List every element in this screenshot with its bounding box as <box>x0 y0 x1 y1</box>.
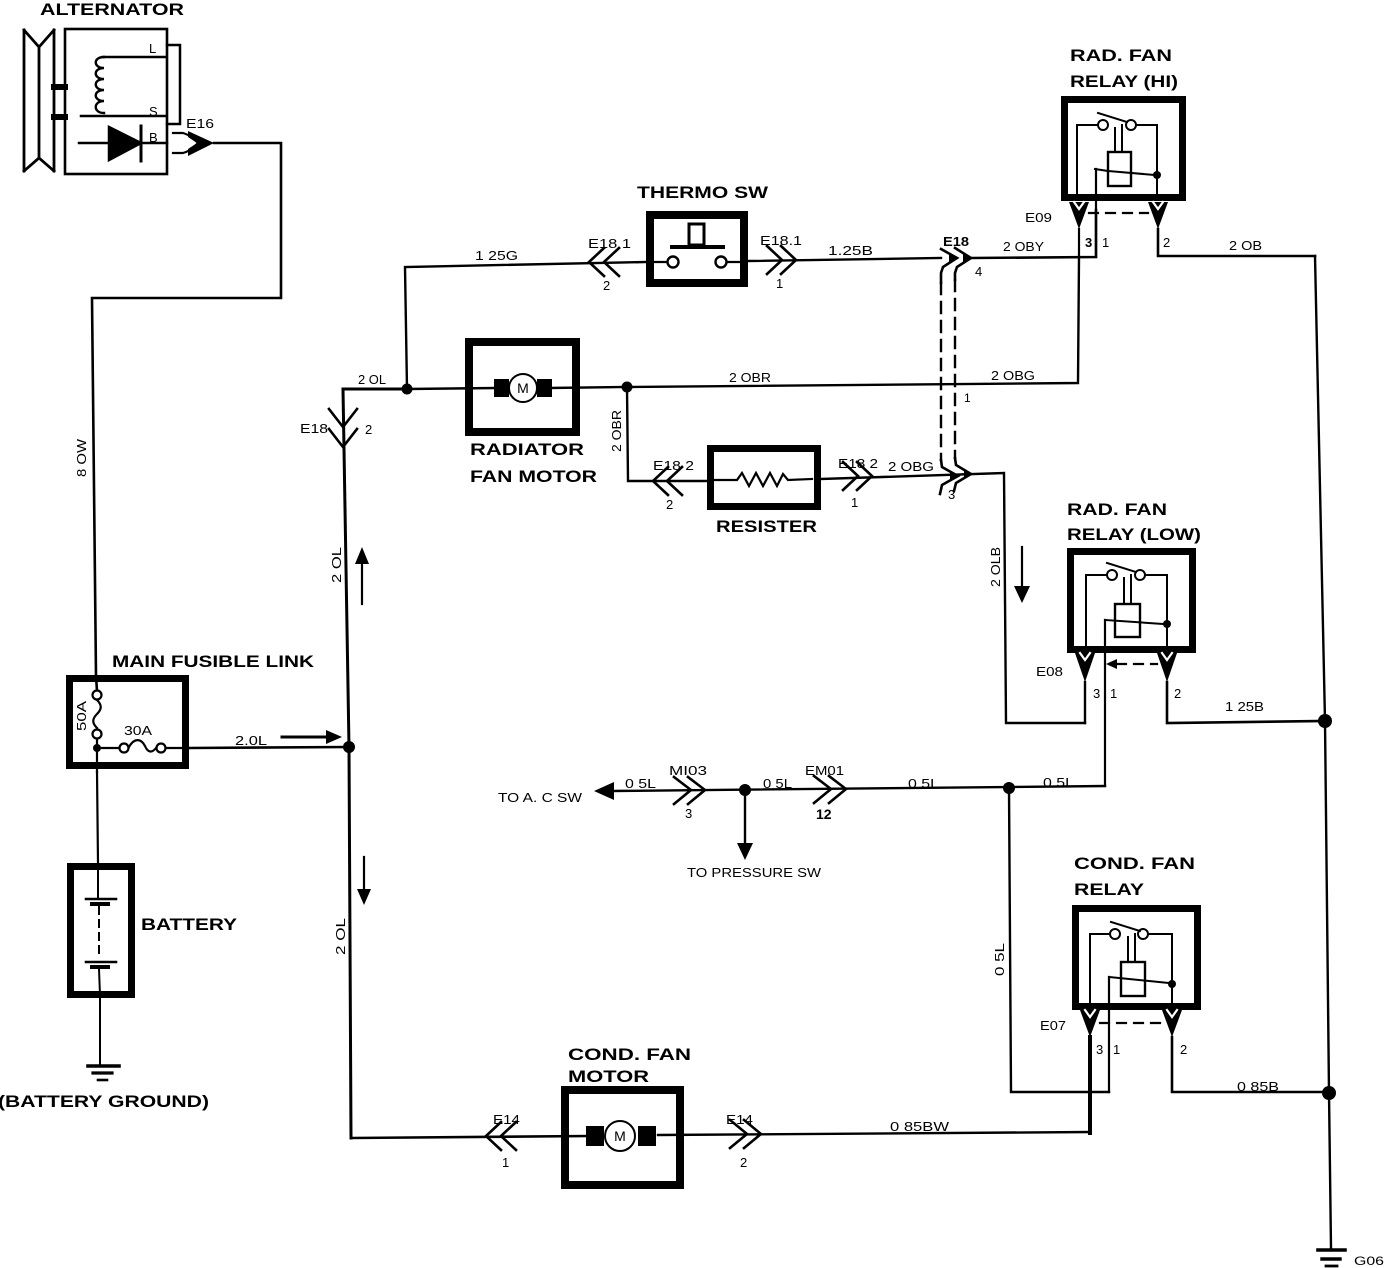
connector E14 pin 2 chevrons <box>726 1112 761 1170</box>
svg-text:0 5L: 0 5L <box>992 943 1007 976</box>
wire label 0 5L fourth <box>1043 775 1074 790</box>
arrow up on 2.0L <box>355 547 369 604</box>
battery cells <box>86 869 116 995</box>
svg-text:8 OW: 8 OW <box>74 438 89 477</box>
wire 2.0B to right bus <box>1158 229 1315 256</box>
cond fan motor M <box>586 1121 1090 1151</box>
svg-text:COND. FAN: COND. FAN <box>568 1045 691 1064</box>
wire 1.25B thermo to E18 <box>748 258 941 261</box>
svg-text:M: M <box>517 380 529 396</box>
svg-text:1: 1 <box>964 391 971 405</box>
svg-text:3: 3 <box>1096 1042 1103 1057</box>
wire 0.5L row <box>612 786 1105 791</box>
connector E18 boundary dashed lines <box>941 280 955 460</box>
wire 2.0BY <box>971 210 1096 258</box>
svg-text:B: B <box>149 130 158 145</box>
svg-text:1: 1 <box>851 495 858 510</box>
svg-text:30A: 30A <box>124 723 152 738</box>
cond fan relay pin 1 wire <box>1108 977 1110 1092</box>
svg-text:2: 2 <box>603 278 610 293</box>
fuse 50A <box>74 691 102 739</box>
svg-text:MAIN FUSIBLE LINK: MAIN FUSIBLE LINK <box>112 652 315 671</box>
cond fan relay pin numbers <box>1096 1042 1187 1057</box>
rad fan relay LOW pin 1 wire <box>1104 620 1106 786</box>
svg-text:2.0L: 2.0L <box>235 733 267 748</box>
wire 1.25B relay LOW pin 2 <box>1167 682 1325 723</box>
connector E07 triangles <box>1040 1010 1182 1037</box>
svg-text:RESISTER: RESISTER <box>716 517 817 536</box>
right vertical bus 2.0B <box>1315 256 1331 1248</box>
svg-text:EM01: EM01 <box>805 763 844 778</box>
wire 2.0L to cond fan motor <box>351 1136 588 1138</box>
alternator body box <box>65 29 167 174</box>
diode D1 <box>79 126 167 161</box>
radiator fan motor M <box>407 374 627 402</box>
svg-text:2 OLB: 2 OLB <box>988 547 1003 587</box>
junction node 1.25B on bus <box>1318 714 1332 728</box>
svg-text:1.25B: 1.25B <box>828 243 873 258</box>
fuse 30A <box>102 723 189 753</box>
wire 2.0BR to relay HI <box>627 257 1079 387</box>
svg-text:MOTOR: MOTOR <box>568 1067 649 1086</box>
resister label <box>716 517 817 536</box>
svg-text:1: 1 <box>1102 235 1109 250</box>
svg-text:50A: 50A <box>74 701 89 731</box>
wire label 2 OBG lower <box>888 459 934 474</box>
wire label 0 5L second <box>763 776 792 791</box>
connector E18 pin 3 crossing <box>940 458 973 502</box>
wire label 2 OBG top <box>991 368 1035 383</box>
connector MI03 chevrons <box>669 763 707 821</box>
wire label 2 OL top <box>358 372 386 387</box>
wire label 0.5L rotated <box>992 943 1007 976</box>
rad fan relay LOW pin numbers <box>1093 686 1181 701</box>
wire label 2 OL rotated upper <box>329 547 344 583</box>
cond fan relay box <box>1076 909 1198 1007</box>
connector E14 pin 1 chevrons <box>486 1112 520 1170</box>
connector E18.1 pin 1 chevrons <box>760 233 802 291</box>
rad fan relay LOW pin 3 wire <box>1084 682 1086 723</box>
junction node pressure switch branch <box>739 784 751 796</box>
svg-text:3: 3 <box>948 487 955 502</box>
svg-text:E07: E07 <box>1040 1018 1066 1033</box>
svg-text:E18 2: E18 2 <box>838 456 878 471</box>
wire 2.0L vertical main run <box>343 389 351 1138</box>
svg-text:M: M <box>614 1128 626 1144</box>
connector EM01 chevrons <box>805 763 846 822</box>
wire label 1.25B <box>828 243 873 258</box>
svg-text:2: 2 <box>1174 686 1181 701</box>
terminal S <box>149 104 158 119</box>
wire label 2 OLB rotated <box>988 547 1003 587</box>
rad fan relay HI box <box>1065 100 1183 198</box>
svg-text:1: 1 <box>502 1155 509 1170</box>
connector E18 pin 1 crossing label <box>964 391 971 405</box>
svg-text:4: 4 <box>975 264 982 279</box>
wire from fusible link to battery <box>97 772 98 863</box>
radiator fan motor box <box>469 342 576 432</box>
connector E09 triangles <box>1025 202 1168 229</box>
rad fan relay LOW label <box>1067 500 1201 544</box>
svg-text:RAD. FAN: RAD. FAN <box>1067 500 1167 519</box>
alternator field coil <box>81 57 166 116</box>
cond fan relay label <box>1074 854 1195 899</box>
svg-text:0 5L: 0 5L <box>763 776 792 791</box>
battery label <box>141 915 238 934</box>
wire 2.0BR branch down to resister <box>627 387 707 481</box>
battery ground symbol <box>88 1066 119 1080</box>
svg-text:BATTERY: BATTERY <box>141 915 238 934</box>
svg-text:RAD. FAN: RAD. FAN <box>1070 46 1172 65</box>
svg-text:(BATTERY GROUND): (BATTERY GROUND) <box>0 1092 209 1111</box>
svg-text:E16: E16 <box>186 116 214 131</box>
connector E18.2 pin 1 chevrons <box>838 456 878 510</box>
svg-text:RELAY: RELAY <box>1074 880 1145 899</box>
junction node at radiator motor feed <box>402 384 413 395</box>
svg-text:S: S <box>149 104 158 119</box>
rad fan relay LOW internals <box>1086 563 1171 649</box>
svg-text:0 5L: 0 5L <box>908 776 939 791</box>
svg-text:2 OB: 2 OB <box>1229 238 1262 253</box>
rad fan relay HI pin 1 wire <box>1095 169 1097 257</box>
wire label 8 OW <box>74 438 89 477</box>
svg-text:E18 1: E18 1 <box>588 236 631 251</box>
wire 0.85B cond relay pin 2 <box>1172 1037 1329 1094</box>
svg-text:2 OBR: 2 OBR <box>609 410 624 452</box>
svg-text:1: 1 <box>776 276 783 291</box>
svg-text:2 OBR: 2 OBR <box>729 370 771 385</box>
wire 1.25G riser <box>405 262 647 389</box>
wire 2.0L top corner to motor junction <box>343 388 407 391</box>
svg-text:1: 1 <box>1110 686 1117 701</box>
svg-text:12: 12 <box>816 806 832 822</box>
svg-text:TO A. C SW: TO A. C SW <box>498 790 583 805</box>
resister element R1 <box>715 473 812 486</box>
svg-text:3: 3 <box>1085 235 1092 250</box>
wire label 2 OBR rotated <box>609 410 624 452</box>
main fusible link box <box>70 679 186 766</box>
junction in fusible link <box>93 739 101 772</box>
terminal L <box>149 41 180 124</box>
wire label 0 5L third <box>908 776 939 791</box>
svg-text:E14: E14 <box>726 1112 753 1127</box>
svg-text:0 85B: 0 85B <box>1237 1079 1279 1094</box>
svg-text:2: 2 <box>666 497 673 512</box>
cond fan relay pin 3 wire <box>1088 1037 1092 1133</box>
svg-text:2 OBG: 2 OBG <box>991 368 1035 383</box>
wire to pressure switch <box>687 790 822 880</box>
wire battery to ground <box>99 998 101 1065</box>
svg-text:E09: E09 <box>1025 210 1052 225</box>
alternator label <box>40 0 184 19</box>
svg-text:1 25B: 1 25B <box>1225 699 1264 714</box>
connector E18.2 pin 2 chevrons <box>653 458 694 512</box>
svg-text:2 OBY: 2 OBY <box>1003 239 1044 254</box>
wire label 0 5L first <box>625 776 656 791</box>
rad fan relay HI internals <box>1077 113 1161 197</box>
wire 2.0L from fusible link to main junction <box>189 747 349 748</box>
svg-text:2 OL: 2 OL <box>358 372 386 387</box>
rad fan relay LOW box <box>1071 552 1193 650</box>
svg-text:3: 3 <box>685 806 692 821</box>
connector E18.1 pin 2 chevrons <box>588 236 631 293</box>
svg-text:L: L <box>149 41 156 56</box>
arrow down on 2.0L <box>357 857 371 905</box>
wire 0.5L down to cond fan relay <box>1009 788 1109 1092</box>
svg-text:2 OL: 2 OL <box>329 547 344 583</box>
thermo switch box <box>650 215 744 283</box>
svg-text:E08: E08 <box>1036 664 1063 679</box>
connector E18 pin 2 chevrons on 2.0L <box>300 409 372 447</box>
svg-text:E18 2: E18 2 <box>653 458 694 473</box>
cond fan relay internals <box>1090 922 1176 1006</box>
cond fan motor box <box>565 1090 680 1185</box>
wire label 0 85BW <box>890 1119 950 1134</box>
svg-text:RADIATOR: RADIATOR <box>470 440 584 459</box>
main fusible link label <box>112 652 315 671</box>
junction node 0.85B on bus <box>1322 1086 1336 1100</box>
junction node right of radiator motor <box>622 382 633 393</box>
svg-text:0 85BW: 0 85BW <box>890 1119 950 1134</box>
wire label 2.0L with arrow <box>235 730 342 748</box>
svg-text:E14: E14 <box>493 1112 520 1127</box>
rad fan relay HI pin 3 wire <box>1078 229 1080 257</box>
svg-text:MI03: MI03 <box>669 763 707 778</box>
connector E08 triangles <box>1036 653 1177 682</box>
svg-text:2: 2 <box>740 1155 747 1170</box>
svg-text:E18.1: E18.1 <box>760 233 802 248</box>
junction node main 2.0L <box>343 741 355 753</box>
svg-text:TO PRESSURE SW: TO PRESSURE SW <box>687 865 822 880</box>
svg-text:RELAY (LOW): RELAY (LOW) <box>1067 525 1201 544</box>
svg-text:2 OBG: 2 OBG <box>888 459 934 474</box>
svg-text:2 OL: 2 OL <box>333 918 348 955</box>
cond fan motor label <box>568 1045 691 1086</box>
svg-text:1 25G: 1 25G <box>475 248 518 263</box>
svg-text:COND. FAN: COND. FAN <box>1074 854 1195 873</box>
svg-text:E18: E18 <box>943 234 969 249</box>
wire label 2 OL rotated lower <box>333 918 348 955</box>
svg-text:0 5L: 0 5L <box>625 776 656 791</box>
wire label 1 25G <box>475 248 518 263</box>
thermo switch contacts <box>654 224 742 268</box>
rad fan relay HI pin numbers <box>1085 235 1170 250</box>
battery box <box>71 867 132 995</box>
svg-text:2: 2 <box>365 422 372 437</box>
wire 8.0W from B terminal to fusible link <box>92 143 281 691</box>
radiator fan motor label <box>470 440 597 486</box>
svg-text:1: 1 <box>1113 1042 1120 1057</box>
svg-text:3: 3 <box>1093 686 1100 701</box>
svg-text:RELAY (HI): RELAY (HI) <box>1070 72 1178 91</box>
junction node 0.5L branch down <box>1003 782 1015 794</box>
battery ground label <box>0 1092 209 1111</box>
wire label 2 OBR <box>729 370 771 385</box>
svg-text:THERMO SW: THERMO SW <box>637 183 769 202</box>
svg-text:G06: G06 <box>1354 1254 1384 1268</box>
svg-text:FAN MOTOR: FAN MOTOR <box>470 467 597 486</box>
connector E16 <box>173 116 214 156</box>
alternator pulley <box>24 30 65 171</box>
terminal B <box>149 130 158 145</box>
rad fan relay HI label <box>1070 46 1178 91</box>
resister box <box>711 449 818 507</box>
wire 2.0BG resister to relay LOW <box>821 473 1085 723</box>
svg-text:E18: E18 <box>300 421 328 436</box>
arrow down beside 2.0LB <box>1014 547 1030 603</box>
arrow to A.C SW <box>498 782 614 805</box>
connector E18 pin 4 crossing <box>941 234 982 283</box>
svg-text:ALTERNATOR: ALTERNATOR <box>40 0 184 19</box>
svg-text:2: 2 <box>1180 1042 1187 1057</box>
svg-text:2: 2 <box>1163 235 1170 250</box>
ground G06 <box>1318 1250 1384 1268</box>
svg-text:0 5L: 0 5L <box>1043 775 1074 790</box>
thermo switch label <box>637 183 769 202</box>
